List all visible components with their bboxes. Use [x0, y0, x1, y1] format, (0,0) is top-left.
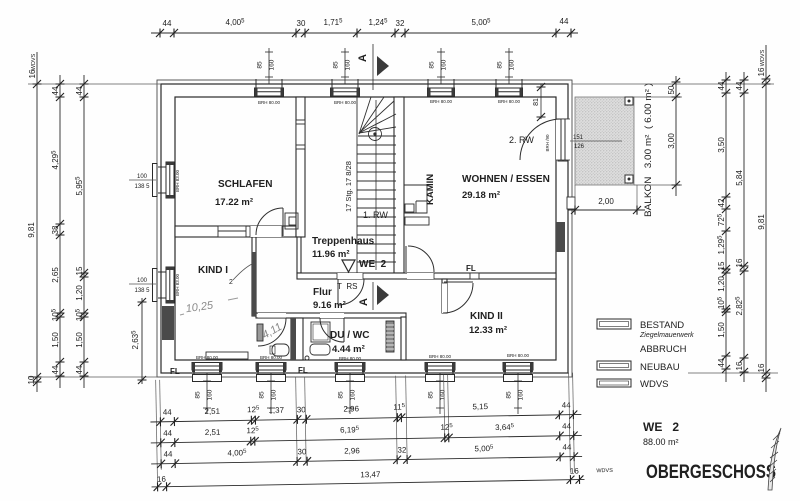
svg-text:16: 16	[757, 67, 766, 76]
svg-text:15: 15	[717, 261, 726, 270]
balcony chain 50 / 3,00	[675, 76, 677, 196]
section arrow bottom	[377, 285, 389, 305]
bottom row 1	[150, 414, 581, 422]
section arrow top	[377, 56, 389, 76]
outer masonry face	[161, 84, 568, 373]
svg-text:16: 16	[735, 258, 744, 267]
svg-text:160: 160	[441, 59, 448, 70]
svg-text:32: 32	[396, 19, 405, 28]
svg-text:85: 85	[195, 391, 202, 399]
svg-text:85: 85	[506, 391, 513, 399]
svg-text:44: 44	[163, 19, 172, 28]
svg-text:NEUBAU: NEUBAU	[640, 362, 680, 373]
right extension bottom	[688, 372, 778, 374]
svg-text:WOHNEN / ESSEN: WOHNEN / ESSEN	[462, 174, 550, 185]
svg-text:BESTAND: BESTAND	[640, 320, 684, 331]
svg-text:16: 16	[757, 363, 766, 372]
svg-text:85: 85	[497, 61, 504, 69]
svg-text:BRH 80.00: BRH 80.00	[498, 99, 521, 104]
svg-text:44: 44	[735, 81, 744, 90]
svg-text:Ziegelmauerwerk: Ziegelmauerwerk	[639, 332, 694, 339]
svg-text:160: 160	[269, 59, 276, 70]
svg-text:44: 44	[51, 86, 60, 95]
svg-text:2,00: 2,00	[598, 197, 614, 206]
svg-text:BRH 80.00: BRH 80.00	[430, 99, 453, 104]
FL box exterior right wall	[567, 197, 575, 209]
left chain 2	[59, 75, 61, 388]
section line top	[372, 44, 374, 90]
wall DU/WC right vertical	[401, 317, 406, 360]
window SCHLAFEN top	[255, 79, 284, 96]
window KIND I bottom	[192, 363, 222, 382]
shower	[311, 322, 330, 342]
svg-text:2,51: 2,51	[204, 407, 220, 416]
svg-text:2,96: 2,96	[344, 446, 360, 455]
stair start circle	[369, 128, 382, 141]
leader window Treppenhaus	[341, 48, 349, 84]
leader window WOHNEN right	[505, 48, 513, 84]
small circle drain	[305, 356, 309, 360]
window WOHNEN top right	[496, 79, 523, 96]
svg-text:38: 38	[51, 225, 60, 234]
svg-text:T RS: T RS	[337, 282, 357, 291]
interior window element in SCHLAFEN/KIND I wall	[218, 226, 246, 237]
window SCHLAFEN left	[153, 162, 175, 198]
svg-text:1,50: 1,50	[75, 332, 84, 348]
svg-text:2,96: 2,96	[343, 404, 359, 413]
svg-text:16: 16	[570, 467, 580, 476]
top chain line	[151, 32, 578, 34]
window KIND II bottom right	[503, 363, 533, 382]
right chain C	[765, 45, 767, 392]
svg-text:30: 30	[297, 405, 307, 414]
svg-text:16: 16	[735, 361, 744, 370]
balcony post bottom right	[625, 175, 633, 183]
svg-text:138 5: 138 5	[134, 288, 150, 294]
wall nook | Treppenhaus thin	[297, 237, 301, 273]
svg-text:BRH 80.00: BRH 80.00	[196, 355, 219, 360]
svg-text:9.16 m²: 9.16 m²	[313, 300, 346, 311]
leader window SCHLAFEN	[265, 48, 273, 84]
svg-text:Treppenhaus: Treppenhaus	[312, 236, 375, 247]
svg-text:85: 85	[333, 61, 340, 69]
svg-text:A: A	[357, 54, 369, 62]
wall KIND II door frame vertical	[442, 279, 447, 313]
door DU/WC	[320, 313, 344, 342]
svg-text:44: 44	[717, 358, 726, 367]
outer WDVS outline	[157, 80, 572, 377]
neubau right wall segment WOHNEN	[556, 222, 565, 252]
svg-text:85: 85	[338, 391, 345, 399]
section line bottom	[372, 282, 374, 310]
wall Treppenhaus | WOHNEN vertical	[394, 97, 404, 273]
window Treppenhaus top	[331, 79, 360, 96]
left chain 3	[83, 75, 85, 388]
svg-text:3,00: 3,00	[667, 133, 676, 149]
svg-text:ABBRUCH: ABBRUCH	[640, 344, 687, 355]
svg-text:FL: FL	[298, 366, 308, 375]
wall room A | DU/WC vertical	[291, 318, 303, 360]
bottom row 4 overall	[152, 479, 585, 487]
stair treads	[357, 144, 396, 146]
svg-text:1,50: 1,50	[51, 332, 60, 348]
svg-text:160: 160	[271, 389, 278, 400]
right chain B	[743, 72, 745, 382]
stair side lines	[356, 97, 358, 273]
svg-text:WDVS: WDVS	[760, 49, 766, 66]
svg-text:BRH /90: BRH /90	[545, 134, 550, 152]
svg-text:81: 81	[533, 98, 540, 106]
svg-text:WDVS: WDVS	[596, 468, 613, 474]
svg-text:160: 160	[509, 59, 516, 70]
balcony post top right	[625, 97, 633, 105]
label WE 2 triangle	[342, 260, 355, 272]
svg-text:85: 85	[259, 391, 266, 399]
svg-text:FL: FL	[466, 264, 476, 273]
svg-text:151: 151	[573, 135, 584, 141]
left chain 1 (overall 9,81)	[36, 52, 38, 392]
svg-text:85: 85	[429, 61, 436, 69]
svg-text:BRH 80.00: BRH 80.00	[260, 355, 283, 360]
svg-text:9,81: 9,81	[757, 214, 766, 230]
svg-text:BRH 80.00: BRH 80.00	[339, 356, 362, 361]
svg-text:WE 2: WE 2	[643, 420, 679, 434]
svg-text:1. RW: 1. RW	[363, 210, 388, 220]
bottom row 3	[151, 456, 582, 464]
svg-text:126: 126	[574, 144, 585, 150]
FL box corridor	[470, 273, 479, 279]
window KIND II bottom left	[425, 363, 455, 382]
radiator KIND I bottom	[206, 352, 248, 359]
north arrow sliver	[768, 428, 781, 490]
leader window WOHNEN left	[437, 48, 445, 84]
svg-text:100: 100	[137, 174, 148, 180]
svg-text:42: 42	[717, 198, 726, 207]
door WOHNEN from corridor	[406, 246, 434, 279]
svg-text:WDVS: WDVS	[31, 53, 37, 70]
door room A	[258, 313, 286, 346]
svg-text:BRH 80.00: BRH 80.00	[334, 100, 357, 105]
door KIND II	[442, 282, 473, 313]
svg-text:44: 44	[75, 365, 84, 374]
svg-text:12.33 m²: 12.33 m²	[469, 325, 507, 336]
svg-text:KAMIN: KAMIN	[425, 174, 436, 205]
neubau wall at room A	[291, 318, 296, 360]
svg-text:A: A	[358, 298, 370, 306]
svg-text:44: 44	[51, 365, 60, 374]
riser box SCHLAFEN nook	[285, 213, 298, 229]
svg-text:1,20: 1,20	[717, 276, 726, 292]
right extension top	[572, 83, 774, 85]
bottom row 2	[151, 435, 582, 443]
neubau KIND I right wall segment	[252, 252, 256, 316]
right chain A	[725, 72, 727, 382]
svg-text:32: 32	[397, 446, 407, 455]
wall SCHLAFEN / KIND I horizontal	[175, 226, 296, 237]
left extension line top	[28, 83, 161, 85]
svg-text:1,50: 1,50	[717, 322, 726, 338]
svg-text:2,65: 2,65	[51, 267, 60, 283]
svg-text:13,47: 13,47	[360, 470, 381, 479]
radiator DU/WC	[386, 321, 394, 352]
svg-text:29.18 m²: 29.18 m²	[462, 190, 500, 201]
door Flur (T RS) from Treppenhaus	[337, 273, 364, 305]
balcony slab stippled	[575, 97, 634, 185]
svg-text:44: 44	[562, 422, 572, 431]
svg-text:BRH 80.00: BRH 80.00	[258, 100, 281, 105]
stair walking line	[375, 100, 377, 270]
legend symbol BESTAND	[597, 319, 631, 329]
svg-text:44: 44	[562, 401, 572, 410]
svg-text:3,50: 3,50	[717, 137, 726, 153]
dim 2,63 for KIND I	[141, 298, 143, 384]
svg-text:10: 10	[27, 375, 36, 384]
toilet room A	[272, 344, 289, 356]
svg-text:BALKON 3.00 m² ( 6.00 m² ): BALKON 3.00 m² ( 6.00 m² )	[643, 83, 653, 217]
svg-text:44: 44	[562, 443, 572, 452]
svg-text:1,20: 1,20	[75, 285, 84, 301]
svg-text:44: 44	[75, 86, 84, 95]
svg-text:17.22 m²: 17.22 m²	[215, 197, 253, 208]
washbasin	[310, 344, 330, 355]
svg-text:44: 44	[163, 408, 173, 417]
svg-text:44: 44	[717, 81, 726, 90]
neubau left wall segment	[162, 306, 174, 340]
svg-text:160: 160	[350, 389, 357, 400]
svg-text:30: 30	[297, 447, 307, 456]
svg-text:44: 44	[560, 17, 569, 26]
svg-text:WE 2: WE 2	[359, 259, 387, 270]
svg-text:160: 160	[518, 389, 525, 400]
stair winder fan	[359, 97, 371, 134]
svg-text:100: 100	[137, 278, 148, 284]
svg-text:OBERGESCHOSS: OBERGESCHOSS	[646, 462, 776, 483]
svg-text:16: 16	[157, 475, 167, 484]
svg-text:17 Stg. 17 8/28: 17 Stg. 17 8/28	[344, 161, 353, 212]
svg-text:5,84: 5,84	[735, 170, 744, 186]
svg-text:30: 30	[297, 19, 306, 28]
svg-text:44: 44	[163, 429, 173, 438]
svg-text:50: 50	[667, 85, 676, 94]
svg-text:138 5: 138 5	[134, 184, 150, 190]
legend symbol WDVS	[597, 379, 631, 387]
svg-text:KIND I: KIND I	[198, 265, 228, 276]
svg-text:2,51: 2,51	[205, 428, 221, 437]
legend symbol NEUBAU	[597, 361, 631, 370]
svg-text:KIND II: KIND II	[470, 311, 503, 322]
wall SCHLAFEN | Treppenhaus vertical	[296, 97, 305, 237]
svg-text:2. RW: 2. RW	[509, 135, 534, 145]
svg-text:85: 85	[428, 391, 435, 399]
svg-text:BRH 83.00: BRH 83.00	[175, 169, 180, 192]
wall KIND I right vertical	[252, 237, 256, 316]
svg-text:2: 2	[229, 279, 233, 286]
wall Flur bottom horizontal	[256, 313, 406, 318]
svg-text:DU / WC: DU / WC	[330, 330, 369, 341]
svg-text:WDVS: WDVS	[640, 379, 669, 390]
svg-text:160: 160	[345, 59, 352, 70]
svg-text:9,81: 9,81	[27, 222, 36, 238]
svg-text:44: 44	[163, 450, 173, 459]
niche element in wall W1	[296, 120, 305, 149]
svg-text:4.44 m²: 4.44 m²	[332, 344, 365, 355]
svg-text:SCHLAFEN: SCHLAFEN	[218, 179, 272, 190]
svg-text:16: 16	[28, 69, 37, 78]
left extension line bottom	[28, 376, 157, 378]
svg-text:88.00 m²: 88.00 m²	[643, 437, 679, 447]
svg-text:BRH 83.00: BRH 83.00	[175, 273, 180, 296]
top chain labels	[163, 17, 569, 28]
window DU/WC bottom	[335, 363, 365, 382]
door SCHLAFEN: opening + leaf + arc	[250, 208, 283, 237]
svg-text:BRH 80.00: BRH 80.00	[429, 354, 452, 359]
svg-text:5,15: 5,15	[472, 402, 488, 411]
svg-text:85: 85	[257, 61, 264, 69]
svg-text:11.96 m²: 11.96 m²	[312, 249, 350, 260]
radiator room A	[257, 324, 263, 341]
inner face of exterior walls	[175, 97, 556, 360]
window room A bottom	[256, 363, 286, 382]
window KIND I left	[153, 267, 175, 303]
svg-text:FL: FL	[170, 367, 180, 376]
wall Treppenhaus/corridor bottom horizontal	[297, 273, 556, 279]
window WOHNEN top left	[428, 79, 455, 96]
svg-text:BRH 80.00: BRH 80.00	[507, 353, 530, 358]
svg-text:15: 15	[75, 266, 84, 275]
bottom extensions	[156, 380, 158, 491]
svg-text:Flur: Flur	[313, 287, 332, 298]
svg-text:160: 160	[207, 389, 214, 400]
svg-text:1,37: 1,37	[268, 406, 284, 415]
svg-text:160: 160	[440, 389, 447, 400]
door balcony in right wall	[520, 119, 570, 160]
